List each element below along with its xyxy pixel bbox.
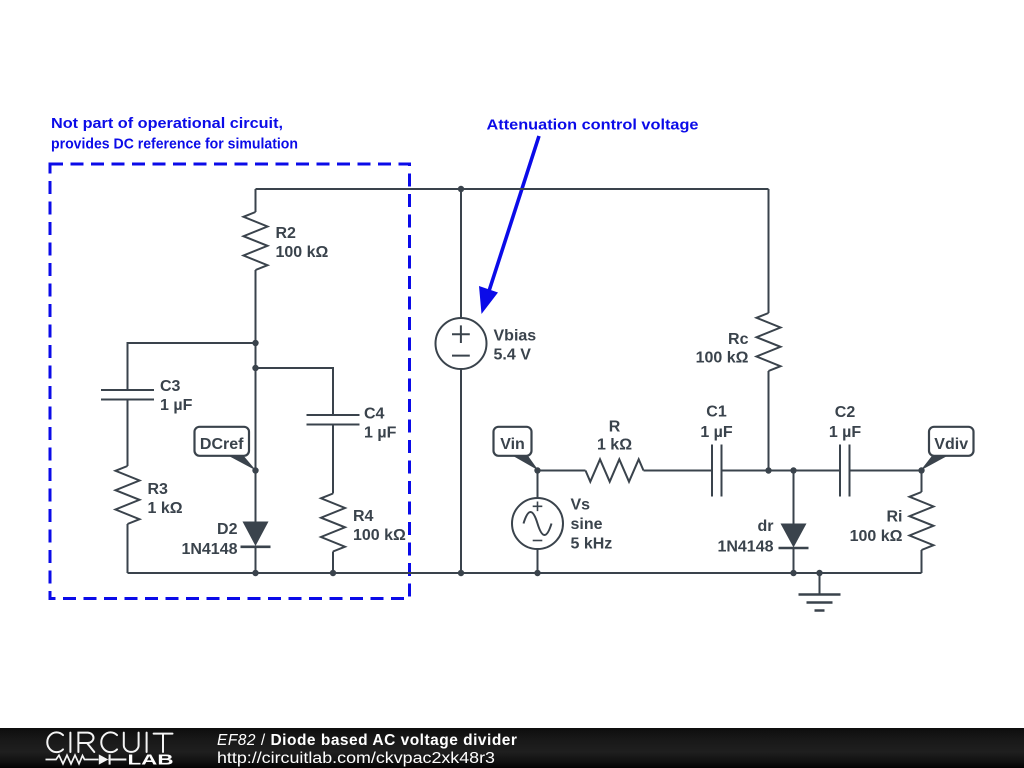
- wire: R2 top stub: [255, 189, 257, 212]
- svg-text:1 µF: 1 µF: [700, 424, 733, 441]
- diode dr cathode bar: [779, 547, 809, 550]
- wire: dr anode: [793, 471, 795, 524]
- logo diode bar: [108, 754, 126, 764]
- resistor Rc: [757, 313, 781, 371]
- wire: Ri top: [921, 471, 923, 493]
- svg-text:R: R: [609, 419, 621, 436]
- voltage source Vs circle: [512, 498, 563, 549]
- svg-text:1 kΩ: 1 kΩ: [148, 500, 183, 517]
- wire: C3 to R3: [127, 400, 129, 467]
- wire: Vs bottom: [537, 549, 539, 573]
- Vs sine wave: [524, 512, 552, 535]
- svg-text:DCref: DCref: [200, 436, 244, 453]
- wire: mid branch to C4: [256, 368, 334, 415]
- svg-text:1 kΩ: 1 kΩ: [597, 437, 632, 454]
- wire: Vin node to R: [538, 470, 586, 472]
- wire: Rc top: [768, 189, 770, 313]
- diode D2 cathode bar: [241, 545, 271, 548]
- capacitor C1: [712, 445, 722, 497]
- blue arrowhead: [479, 286, 498, 314]
- svg-text:1 µF: 1 µF: [160, 397, 193, 414]
- svg-text:C3: C3: [160, 378, 181, 395]
- resistor Ri: [910, 492, 934, 550]
- svg-text:5.4 V: 5.4 V: [494, 347, 532, 364]
- blue dashed annotation box: [50, 164, 410, 599]
- node dot: rail at ground: [816, 570, 822, 576]
- wire: Ri bottom: [921, 550, 923, 573]
- blue arrow line: [489, 136, 539, 291]
- svg-text:1N4148: 1N4148: [717, 539, 773, 556]
- flag Vin tail: [511, 455, 539, 471]
- logo resistor squiggle: [46, 755, 99, 764]
- wire: C4 to R4: [332, 425, 334, 494]
- svg-text:5 kHz: 5 kHz: [571, 536, 613, 553]
- svg-text:EF82 / Diode based AC voltage: EF82 / Diode based AC voltage divider: [217, 732, 517, 749]
- ground bar 3: [815, 609, 825, 612]
- svg-text:http://circuitlab.com/ckvpac2x: http://circuitlab.com/ckvpac2xk48r3: [217, 750, 495, 767]
- capacitor C4: [307, 415, 360, 425]
- Vs plus sign: [533, 502, 543, 512]
- svg-text:1N4148: 1N4148: [181, 541, 237, 558]
- node dot: Vin node: [534, 467, 540, 473]
- node dot: rail at Vs: [534, 570, 540, 576]
- svg-text:C2: C2: [835, 404, 856, 421]
- Vbias minus sign: [452, 355, 470, 357]
- node dot: R2 bottom left branch: [252, 340, 258, 346]
- svg-text:Vs: Vs: [571, 497, 591, 514]
- svg-text:Not part of operational circui: Not part of operational circuit,: [51, 115, 283, 132]
- ground bar 1: [799, 593, 841, 596]
- diode dr triangle: [781, 524, 807, 548]
- footer bar: [0, 728, 1024, 768]
- svg-text:100 kΩ: 100 kΩ: [276, 244, 329, 261]
- wire: R to C1: [644, 470, 713, 472]
- svg-text:provides DC reference for simu: provides DC reference for simulation: [51, 135, 298, 152]
- svg-text:Vbias: Vbias: [494, 328, 537, 345]
- flag Vin box: [494, 427, 532, 456]
- diode D2 triangle: [243, 522, 269, 547]
- capacitor C2: [840, 445, 850, 497]
- voltage source Vbias circle: [436, 318, 487, 369]
- svg-text:sine: sine: [571, 516, 603, 533]
- Vs minus sign: [533, 540, 543, 542]
- node dot: mid branch: [252, 365, 258, 371]
- svg-text:D2: D2: [217, 521, 238, 538]
- svg-text:Vdiv: Vdiv: [934, 436, 968, 453]
- svg-text:R4: R4: [353, 508, 374, 525]
- flag Vdiv tail: [921, 455, 951, 471]
- wire: D2 cathode to rail: [255, 547, 257, 573]
- resistor R: [586, 459, 644, 481]
- svg-text:C1: C1: [706, 404, 727, 421]
- svg-text:C4: C4: [364, 406, 385, 423]
- wire: Rc bottom: [768, 371, 770, 471]
- svg-text:Vin: Vin: [500, 436, 525, 453]
- wire: bottom rail: [128, 572, 922, 574]
- node dot: rail at D2: [252, 570, 258, 576]
- svg-text:1 µF: 1 µF: [829, 424, 862, 441]
- wire: top rail: [256, 188, 769, 190]
- ground stub: [819, 573, 821, 594]
- svg-text:R2: R2: [276, 225, 297, 242]
- resistor R3: [116, 466, 140, 524]
- wire: dr cathode to rail: [793, 548, 795, 573]
- resistor R2: [244, 212, 268, 270]
- wire: Vbias bottom: [460, 369, 462, 573]
- node dot: Rc bottom node: [765, 467, 771, 473]
- node dot: rail at R4: [330, 570, 336, 576]
- logo diode triangle: [99, 754, 109, 764]
- wire: left branch horizontal to C3: [128, 343, 256, 390]
- svg-text:1 µF: 1 µF: [364, 425, 397, 442]
- svg-text:Rc: Rc: [728, 331, 749, 348]
- wire: center vertical R2 bottom to D2 anode: [255, 270, 257, 522]
- wire: Vbias top: [460, 189, 462, 318]
- wire: C2 to Vdiv node: [850, 470, 922, 472]
- wire: Vs top: [537, 471, 539, 499]
- flag Vdiv box: [929, 427, 974, 456]
- node dot: dr top node: [790, 467, 796, 473]
- logo CIRCUIT lettering: [47, 732, 172, 752]
- Vbias plus sign: [452, 325, 470, 343]
- capacitor C3: [101, 390, 154, 400]
- node dot: Vdiv node: [918, 467, 924, 473]
- flag DCref tail: [226, 455, 256, 471]
- svg-text:Ri: Ri: [887, 509, 903, 526]
- wire: R4 bottom stub: [332, 552, 334, 574]
- node dot: rail at dr: [790, 570, 796, 576]
- ground bar 2: [807, 601, 833, 604]
- svg-text:dr: dr: [758, 518, 774, 535]
- resistor R4: [321, 494, 345, 552]
- wire: C1 to C2: [722, 470, 841, 472]
- svg-text:100 kΩ: 100 kΩ: [353, 527, 406, 544]
- svg-text:Attenuation control voltage: Attenuation control voltage: [487, 117, 699, 134]
- svg-text:100 kΩ: 100 kΩ: [850, 528, 903, 545]
- wire: R3 bottom stub: [127, 524, 129, 573]
- node dot: rail at Vbias: [458, 570, 464, 576]
- node dot: DCref node: [252, 467, 258, 473]
- svg-text:LAB: LAB: [128, 753, 174, 768]
- svg-text:R3: R3: [148, 481, 169, 498]
- svg-text:100 kΩ: 100 kΩ: [696, 350, 749, 367]
- node dot: top rail / Vbias: [458, 186, 464, 192]
- flag DCref box: [195, 427, 250, 456]
